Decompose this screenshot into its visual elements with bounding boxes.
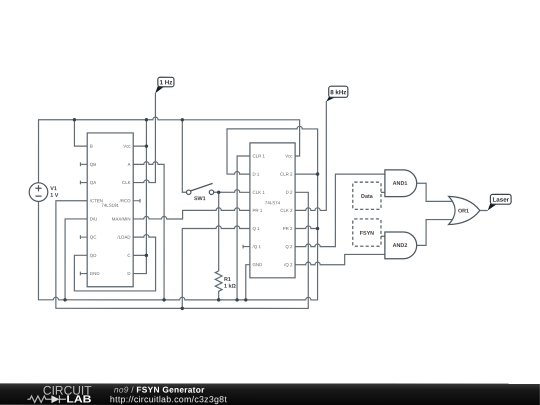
svg-text:GND: GND [90, 271, 100, 276]
svg-text:74LS74: 74LS74 [265, 200, 281, 205]
svg-text:/Q 1: /Q 1 [252, 244, 261, 249]
svg-text:AND2: AND2 [393, 243, 408, 249]
svg-text:PR 1: PR 1 [252, 208, 262, 213]
svg-text:MAX/MIN: MAX/MIN [112, 216, 131, 221]
svg-text:V1: V1 [50, 186, 57, 192]
svg-text:Vcc: Vcc [123, 144, 131, 149]
svg-text:Data: Data [361, 194, 374, 200]
svg-text:/LOAD: /LOAD [117, 235, 130, 240]
svg-text:no9 / FSYN Generator: no9 / FSYN Generator [114, 385, 205, 395]
svg-text:QB: QB [90, 162, 96, 167]
svg-text:74LS191: 74LS191 [101, 203, 119, 208]
svg-text:QA: QA [90, 180, 96, 185]
svg-text:PR 2: PR 2 [283, 226, 293, 231]
svg-text:/RCO: /RCO [120, 198, 132, 203]
svg-text:CLK: CLK [122, 180, 131, 185]
svg-text:AND1: AND1 [393, 181, 408, 187]
svg-text:D 1: D 1 [253, 172, 260, 177]
svg-text:GND: GND [252, 262, 262, 267]
svg-text:D 2: D 2 [286, 190, 293, 195]
svg-text:CLR 2: CLR 2 [280, 172, 293, 177]
svg-text:1 kΩ: 1 kΩ [224, 284, 236, 290]
svg-text:Laser: Laser [493, 197, 510, 204]
svg-text:A: A [128, 162, 131, 167]
svg-text:FSYN: FSYN [360, 231, 374, 237]
svg-text:Q 1: Q 1 [252, 226, 260, 231]
svg-text:C: C [127, 253, 130, 258]
svg-text:OR1: OR1 [458, 208, 469, 214]
svg-text:LAB: LAB [66, 395, 92, 405]
svg-text:Q 2: Q 2 [285, 244, 293, 249]
svg-text:QC: QC [90, 235, 97, 240]
svg-text:Vcc: Vcc [285, 154, 293, 159]
svg-text:D/U: D/U [90, 216, 98, 221]
svg-text:CLK 2: CLK 2 [280, 208, 293, 213]
svg-text:QD: QD [90, 253, 97, 258]
svg-text:1 V: 1 V [50, 193, 58, 199]
svg-text:R1: R1 [224, 277, 231, 283]
svg-text:CLR 1: CLR 1 [253, 153, 266, 158]
svg-text:SW1: SW1 [194, 196, 206, 202]
svg-text:D: D [127, 271, 130, 276]
svg-text:B: B [90, 144, 93, 149]
svg-text:http://circuitlab.com/c3z3g8t: http://circuitlab.com/c3z3g8t [110, 394, 227, 404]
svg-text:CLK 1: CLK 1 [253, 190, 266, 195]
svg-text:8 kHz: 8 kHz [330, 89, 346, 96]
svg-text:1 Hz: 1 Hz [160, 79, 173, 86]
svg-text:/Q 2: /Q 2 [284, 262, 293, 267]
